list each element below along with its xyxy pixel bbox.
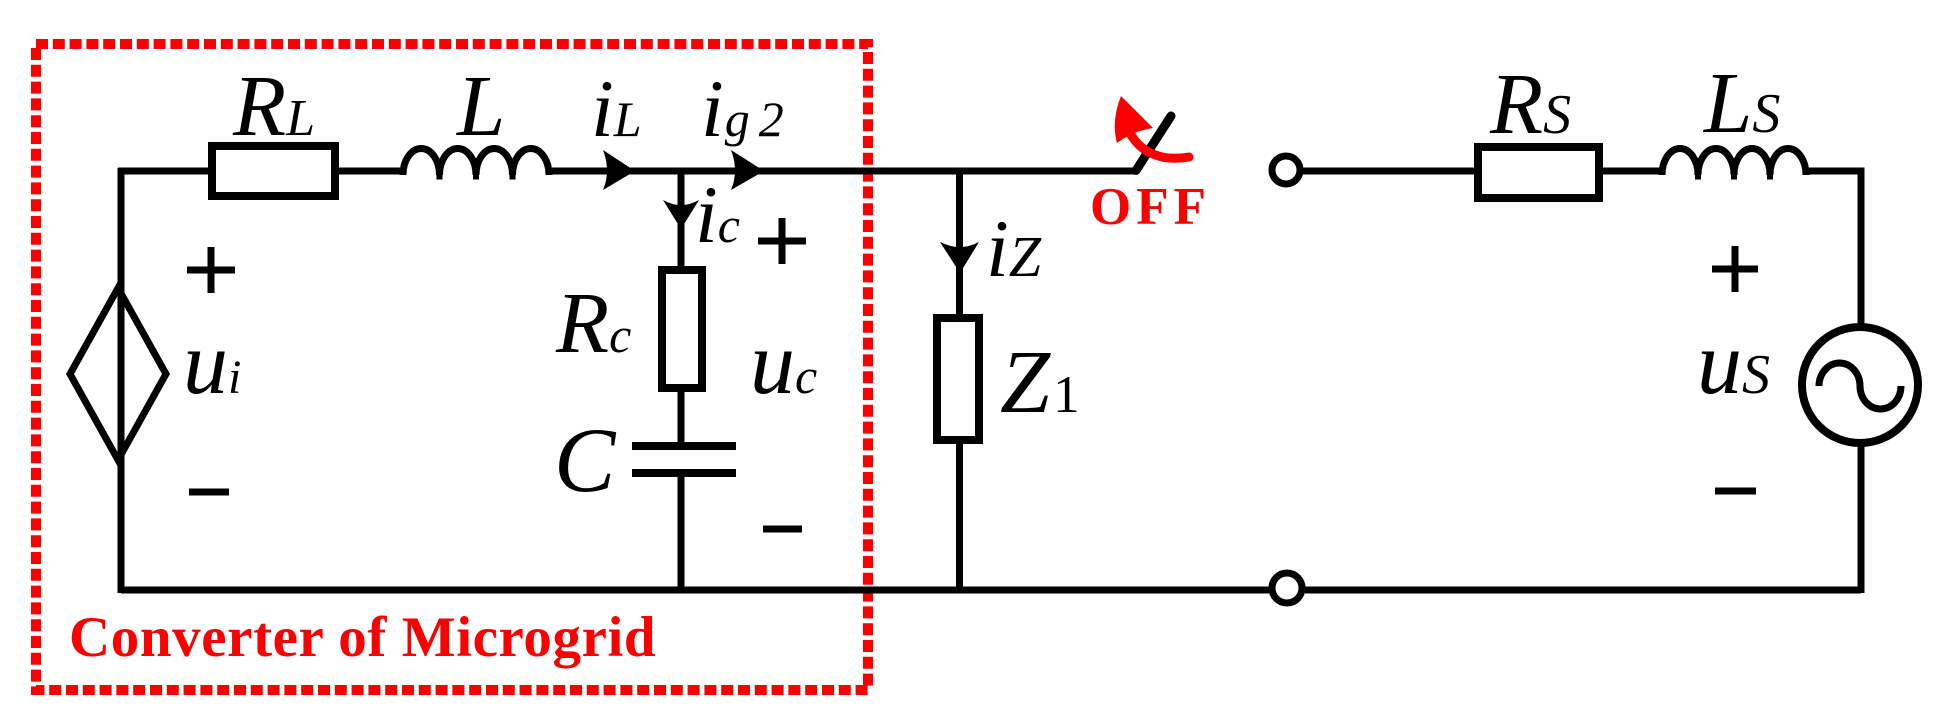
- node: Z1 branch junction / wire down to Z1: [956, 171, 963, 322]
- dependent source u_i (diamond): [70, 288, 166, 460]
- impedance Z1: [937, 318, 979, 440]
- label + of u_i: [187, 247, 235, 293]
- label + of u_S: [1712, 246, 1758, 292]
- wire: left vertical from top wire to bottom wire: [118, 168, 125, 593]
- terminal: top open circle: [1272, 156, 1300, 184]
- switch S1 blade: [1136, 116, 1171, 171]
- label - of u_S: [1715, 488, 1756, 495]
- wire: bottom horizontal left of terminal: [121, 587, 1269, 594]
- svg-text:C: C: [554, 409, 617, 511]
- switch red action arrow arc: [1126, 124, 1189, 158]
- label - of u_i: [189, 489, 229, 496]
- terminal: bottom open circle: [1272, 573, 1302, 603]
- inductor L_S: [1662, 149, 1806, 176]
- resistor R_S: [1478, 147, 1599, 198]
- wire: top terminal to R_S: [1303, 168, 1478, 175]
- inductor L: [403, 149, 549, 176]
- wire: R_c to capacitor C: [678, 388, 685, 449]
- resistor R_L: [212, 146, 335, 196]
- wire: bottom horizontal right of terminal: [1305, 587, 1861, 594]
- wire: L_S to right corner and down to source: [1809, 171, 1861, 330]
- svg-text:Converter of Microgrid: Converter of Microgrid: [69, 606, 656, 669]
- current arrow i_Z: [940, 242, 979, 273]
- current arrow i_g2: [731, 150, 764, 190]
- resistor R_c: [662, 270, 702, 388]
- converter boundary box (red dashed): [36, 44, 868, 690]
- source u_S (AC source circle): [1802, 327, 1918, 443]
- capacitor C top plate: [632, 442, 736, 450]
- wire: source to bottom wire: [1858, 441, 1865, 593]
- wire: R_S to inductor L_S: [1603, 168, 1661, 175]
- wire: capacitor C to bottom wire: [678, 473, 685, 593]
- switch red action arrowhead: [1115, 96, 1153, 143]
- label - of u_c: [763, 526, 802, 533]
- wire: top left horizontal to R_L: [118, 168, 212, 175]
- current arrow i_L: [603, 150, 635, 190]
- node: R_c branch junction / wire down to R_c: [678, 171, 685, 272]
- current arrow i_c: [663, 200, 699, 229]
- wire: Z1 to bottom wire: [956, 440, 963, 593]
- svg-text:L: L: [455, 57, 505, 154]
- source u_S sine wave: [1819, 363, 1901, 409]
- svg-text:OFF: OFF: [1090, 178, 1211, 236]
- wire: R_L to inductor L: [339, 168, 402, 175]
- capacitor C bottom plate: [632, 469, 736, 477]
- wire: inductor L to switch: [552, 168, 1136, 175]
- label + of u_c: [758, 218, 806, 264]
